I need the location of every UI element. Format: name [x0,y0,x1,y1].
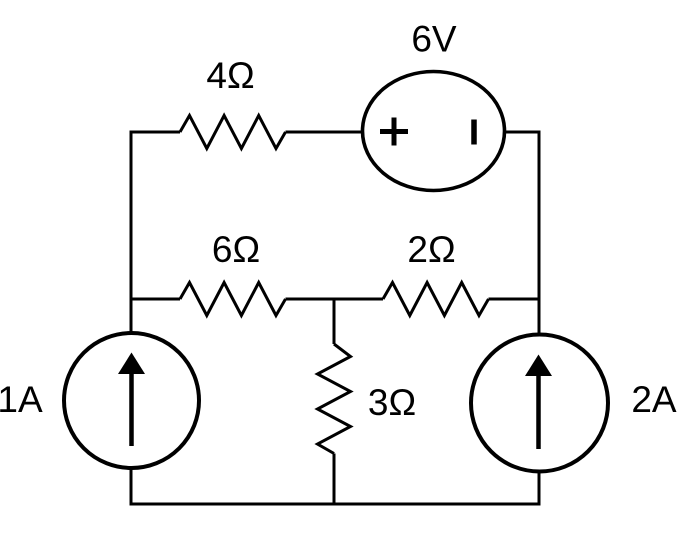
minus terminal symbol of V1 (vertical bar) [471,120,477,145]
svg-text:1A: 1A [0,379,43,420]
arrow of current source I1 [129,371,134,446]
svg-text:3Ω: 3Ω [368,382,416,423]
wire: top-left horizontal from left rail to 4-ohm resistor [130,131,181,134]
voltage source V1 6V (ellipse) [363,72,505,191]
wire: 1A source bottom to bottom wire [130,468,133,504]
resistor R3 3-ohm (vertical zigzag) [318,344,351,454]
wire: left rail from top corner down to 1A source [130,131,133,333]
resistor R1 4-ohm (top, horizontal zigzag) [180,116,286,149]
wire: from 4-ohm resistor to voltage source left terminal [286,131,363,134]
wire: voltage source right terminal to top-right corner [505,131,541,134]
wire: middle horizontal between 6-ohm and middle node [286,298,335,301]
svg-text:2Ω: 2Ω [407,229,455,270]
plus terminal symbol of V1 [380,118,408,146]
node: middle junction to 3-ohm branch [334,298,383,301]
current source I2 2A (circle) [471,335,608,472]
svg-text:2A: 2A [631,379,677,420]
current source I1 1A (circle) [64,333,199,468]
arrow of current source I2 [536,373,541,449]
svg-text:4Ω: 4Ω [206,55,254,96]
svg-text:6Ω: 6Ω [212,229,260,270]
wire: bottom horizontal rail [130,503,541,506]
wire: 3-ohm resistor down to bottom wire [333,454,336,505]
resistor R2 6-ohm (middle-left, horizontal zigzag) [180,283,286,316]
wire: middle horizontal from 2-ohm to right rail [489,298,540,301]
wire: middle branch from node down to 3-ohm resistor [333,299,336,344]
wire: right rail from top corner down to 2A source [538,131,541,335]
wire: 2A source bottom to bottom wire [538,471,541,504]
resistor R4 2-ohm (middle-right, horizontal zigzag) [383,283,489,316]
wire: middle horizontal, left rail to 6-ohm resistor [131,298,180,301]
svg-text:6V: 6V [411,19,457,60]
